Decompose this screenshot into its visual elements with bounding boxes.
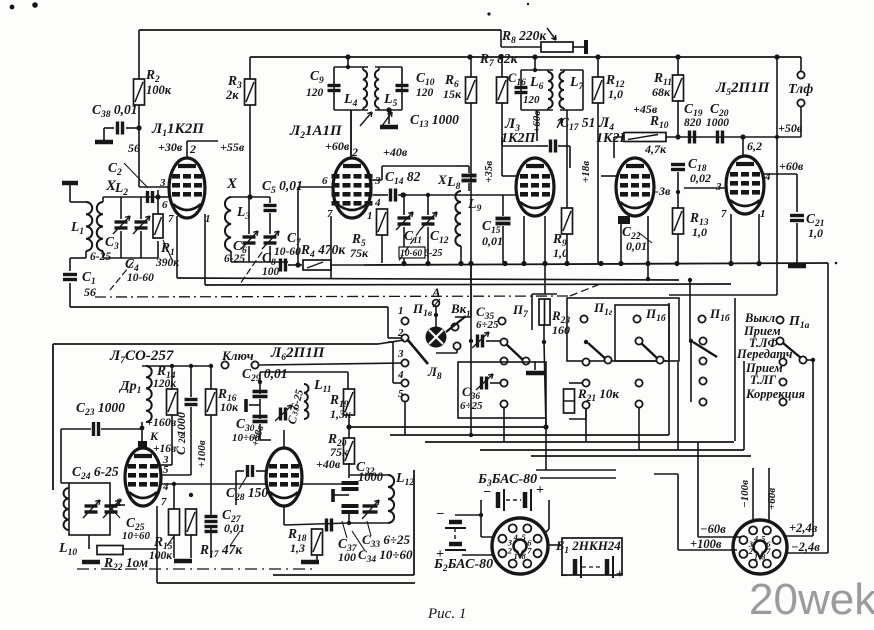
wire R23 box top — [532, 293, 557, 295]
wire AGC bus y263 — [364, 263, 828, 265]
speck — [10, 5, 15, 10]
wire Л1 pin7 down — [176, 216, 178, 278]
switch П1а contact ТЛФ — [776, 337, 783, 344]
wire bottom bus y307 — [70, 306, 388, 308]
wire VFO box top — [53, 343, 378, 345]
wire +60в feed — [768, 468, 770, 522]
terminal Тлф upper — [797, 71, 804, 78]
socket right (power connector) — [733, 520, 787, 574]
wire ant down — [69, 185, 71, 202]
svg-text:120: 120 — [306, 87, 324, 99]
wire C23 right — [101, 428, 142, 430]
antenna terminal bar — [62, 181, 78, 186]
inductor L11 — [304, 384, 309, 419]
svg-text:1: 1 — [398, 305, 404, 317]
wire L6 tap — [534, 57, 536, 70]
wire x690 down — [689, 280, 691, 341]
resistor R20 body — [344, 438, 355, 464]
resistor R19 body — [344, 389, 355, 415]
svg-text:-3в: -3в — [655, 184, 671, 198]
svg-text:2: 2 — [189, 142, 196, 156]
svg-text:100к: 100к — [146, 83, 172, 97]
wire Тлф lower down — [800, 107, 802, 137]
wire R8 wiper — [573, 46, 584, 48]
wire bus y435 — [390, 434, 669, 436]
wire R6 top — [470, 57, 472, 77]
switch П7 contact 4 — [500, 379, 507, 386]
wire R14 down — [171, 415, 173, 465]
capacitor C9 — [328, 86, 341, 91]
battery Б1 cell1 — [573, 559, 578, 575]
wire Л6 grid stub — [256, 470, 267, 472]
wire R8 left — [500, 30, 502, 47]
capacitor C30 — [253, 417, 268, 422]
switch П7 contact 2 — [500, 338, 507, 345]
wire C1 down — [69, 283, 71, 307]
wire R23 down — [543, 325, 545, 342]
wire Б3 left down — [480, 500, 482, 537]
svg-text:+50в: +50в — [778, 121, 803, 135]
wire R2 top — [138, 30, 140, 79]
resistor R12 body — [593, 77, 604, 103]
svg-text:−2,4в: −2,4в — [791, 540, 820, 554]
wire R6 down to bus — [470, 103, 472, 263]
ground under C21 — [788, 264, 806, 269]
capacitor C1 — [63, 275, 77, 280]
wire R7 to C17 node — [502, 145, 537, 147]
capacitor C13 body — [462, 176, 477, 181]
wire C29 box top — [260, 371, 348, 373]
inductor L3 — [225, 197, 231, 251]
switch П7 contact 1 — [498, 317, 505, 324]
switch П1а contact Выкл — [776, 316, 783, 323]
capacitor C23 — [94, 422, 99, 436]
capacitor C7 (10-60) — [264, 237, 277, 243]
wire x777 lower — [776, 137, 778, 295]
svg-text:4: 4 — [374, 197, 381, 209]
wire R12 down — [597, 103, 599, 263]
switch П1а contact ТЛГ — [779, 378, 786, 385]
wire L4 bottom to tube — [350, 110, 352, 158]
wire Л3 pin7 down — [523, 216, 525, 263]
resistor R8 body — [541, 42, 573, 52]
capacitor C29 — [253, 392, 268, 397]
svg-text:0,02: 0,02 — [690, 171, 711, 185]
wire Л5 pin1 down — [758, 214, 760, 263]
wire П7 gnd — [534, 361, 536, 370]
wire box to П1в — [378, 340, 404, 344]
wire Л2 pin7 down — [330, 216, 332, 278]
leader R15 — [167, 536, 174, 546]
resistor R18 body — [312, 529, 323, 555]
wire Ключ to П1в — [259, 363, 402, 365]
switch П1в contact 5 — [401, 394, 408, 401]
svg-text:А: А — [431, 285, 441, 300]
wire -100в feed — [752, 468, 754, 522]
svg-text:7: 7 — [721, 208, 727, 220]
box 10-60 — [399, 247, 425, 258]
tube Л1 (1К2П) — [169, 158, 205, 218]
svg-text:6: 6 — [162, 199, 168, 211]
svg-text:1: 1 — [367, 210, 373, 222]
wire C23 left — [61, 428, 91, 430]
box L10 tank — [69, 483, 110, 535]
svg-text:20wek: 20wek — [749, 575, 874, 624]
wire Л7 pin3 — [161, 464, 172, 466]
ground R15 R17 — [174, 559, 192, 564]
wire R14 top — [171, 366, 173, 389]
svg-text:3: 3 — [374, 175, 381, 187]
switch П1а arm — [783, 343, 801, 358]
wire x813 down — [812, 360, 814, 536]
capacitor C5 — [264, 206, 277, 211]
wire pin2 top — [186, 141, 188, 158]
svg-text:100к: 100к — [149, 550, 173, 562]
tube Л7 top cap — [138, 441, 147, 448]
wire R11 top — [677, 57, 679, 75]
svg-text:10-60: 10-60 — [127, 272, 154, 284]
svg-text:6÷25: 6÷25 — [476, 319, 499, 331]
switch П1б contact 4 — [699, 377, 706, 384]
svg-text:Л62П1П: Л62П1П — [270, 345, 326, 363]
svg-text:К: К — [149, 429, 159, 443]
wire R5 down — [381, 235, 383, 263]
capacitor R8 blocking — [584, 40, 588, 54]
wire tap to C30 node — [249, 404, 260, 406]
wire R2 bottom to grid — [138, 105, 140, 187]
wire C30 down — [259, 424, 261, 440]
wire C27 down — [210, 527, 212, 558]
switch П1б-i contact 3 — [656, 356, 663, 363]
wire R15 top — [173, 484, 175, 509]
tube Л3 (1К2П) — [516, 158, 554, 216]
wire L2 top — [102, 197, 104, 202]
wire C3 top — [120, 197, 122, 219]
capacitor C26 — [185, 400, 198, 405]
resistor R13 body — [673, 208, 684, 234]
wire C38 to gnd — [103, 128, 105, 140]
wire x669 — [668, 303, 670, 435]
terminal Тлф lower — [797, 99, 804, 106]
wire C38 right — [126, 127, 139, 129]
battery Б3 cell2 — [523, 492, 528, 508]
cathode tap — [244, 399, 248, 412]
svg-text:56: 56 — [84, 285, 96, 299]
wire L10 down — [88, 535, 90, 549]
wire C21 down — [796, 223, 798, 263]
wire gang diag — [570, 284, 600, 296]
wire C26 top — [190, 366, 192, 397]
svg-text:1,0: 1,0 — [692, 225, 707, 239]
fuse R23 — [539, 299, 550, 325]
wire pin6 — [158, 196, 171, 198]
capacitor C10 — [396, 86, 409, 91]
tube Л5 (2П1П) — [726, 156, 764, 214]
wire C18 to R13 — [677, 172, 679, 209]
svg-text:Л11К2П: Л11К2П — [151, 121, 205, 139]
wire R15 down — [173, 535, 175, 558]
svg-text:75к: 75к — [350, 246, 369, 260]
switch П1а contact Корр — [779, 398, 786, 405]
inductor L4 — [363, 70, 367, 108]
capacitor C33/C34 variable — [363, 506, 378, 512]
switch П1в contact 1 — [401, 317, 408, 324]
wire tap2 — [333, 494, 349, 496]
wire L3 top — [231, 196, 250, 198]
wire C4 top — [140, 197, 142, 219]
svg-text:4: 4 — [764, 171, 771, 183]
capacitor C27 — [205, 517, 218, 522]
svg-text:+60в: +60в — [779, 159, 804, 173]
wire R1 top — [157, 197, 159, 214]
switch П1г contact 5 — [582, 401, 589, 408]
capacitor C25 (10-60) — [105, 506, 118, 512]
svg-text:1,0: 1,0 — [608, 87, 623, 101]
svg-text:0,01: 0,01 — [626, 239, 647, 253]
resistor R11 body — [673, 75, 684, 101]
svg-text:Рис. 1: Рис. 1 — [427, 606, 466, 622]
svg-text:68к: 68к — [652, 85, 671, 99]
capacitor C31 (6-25) — [281, 408, 286, 421]
wire Л7 top bus — [142, 365, 211, 367]
wire П1в c5 down — [404, 401, 406, 435]
svg-text:−: − — [483, 485, 491, 500]
ground under C38 — [95, 140, 113, 145]
inductor L1 — [86, 202, 92, 251]
svg-text:1,3: 1,3 — [290, 541, 305, 555]
svg-text:4: 4 — [162, 481, 169, 493]
wire C15 down — [502, 226, 504, 263]
svg-text:1: 1 — [760, 208, 766, 220]
wire to L1 top — [70, 201, 86, 203]
wire Вк1 up — [455, 316, 471, 318]
battery Б2 cell2 — [449, 542, 462, 547]
wire Л5 pin7 down — [730, 214, 732, 263]
wire R18 down — [316, 555, 318, 560]
wire R9 down — [566, 234, 568, 263]
wire tank top to C2 — [131, 196, 158, 198]
wire R19-R20 — [348, 414, 350, 439]
wire Л4 plate stub — [613, 137, 615, 158]
switch П7 contact 3 — [500, 357, 507, 364]
leader C2 — [124, 163, 148, 188]
switch П1в arm — [407, 339, 428, 364]
wire C6 top — [248, 197, 250, 234]
switch П7 contact 5 — [500, 400, 507, 407]
resistor R7 body — [497, 77, 508, 103]
wire L5 box — [375, 66, 402, 68]
node Л5 grid — [740, 134, 745, 139]
wire plate bus y137 — [614, 136, 801, 138]
svg-text:100: 100 — [338, 550, 356, 564]
wire Др1 to Л7 — [141, 422, 143, 441]
capacitor C38 — [118, 122, 123, 135]
wire ant to lamp — [435, 307, 437, 327]
svg-text:+40в: +40в — [316, 457, 341, 471]
svg-text:+35в: +35в — [483, 161, 495, 183]
node C38/R2 — [136, 125, 141, 130]
svg-text:7: 7 — [327, 208, 333, 220]
switch П1б-i contact 4 — [635, 379, 642, 386]
wire C11 top — [403, 195, 405, 215]
svg-text:1К2П: 1К2П — [501, 131, 536, 146]
wire Л4 pin7 down — [620, 224, 622, 263]
terminal Ключ right — [251, 361, 258, 368]
wire VFO box left — [52, 344, 54, 490]
wire lamp to Вк1 — [436, 352, 457, 354]
wire C36 to contact — [490, 382, 500, 384]
wire top +bus y30 — [139, 29, 501, 31]
wire socket to Б1 — [548, 544, 562, 546]
svg-text:10к: 10к — [220, 400, 239, 414]
wire Б1 dash — [582, 566, 601, 568]
svg-text:0,01: 0,01 — [482, 234, 503, 248]
svg-text:+100в: +100в — [196, 440, 208, 468]
svg-text:7: 7 — [168, 213, 174, 225]
wire Тлф top — [800, 57, 802, 71]
wire C13 down — [468, 166, 470, 173]
box П1а — [734, 298, 736, 441]
switch П1а contact Прием — [779, 358, 786, 365]
switch П1б contact 3 — [699, 357, 706, 364]
wire L3 bottom — [230, 251, 232, 262]
wire C28 left — [236, 470, 244, 472]
wire Л4 cathode ext — [647, 263, 649, 279]
svg-text:1: 1 — [205, 213, 211, 225]
svg-text:6-25: 6-25 — [224, 253, 245, 265]
svg-text:−100в: −100в — [739, 480, 751, 508]
wire Л7 pin4 long — [161, 483, 352, 485]
capacitor C35 (6-25) — [478, 335, 483, 348]
switch П1б-i contact 2 — [635, 337, 642, 344]
inductor L6 — [548, 72, 553, 108]
svg-text:Т.ЛГ: Т.ЛГ — [750, 373, 777, 387]
svg-text:−60в: −60в — [700, 522, 726, 536]
wire R3 top — [249, 57, 251, 79]
wire П7 c5 down — [503, 408, 505, 442]
wire -60в feed — [697, 442, 699, 537]
svg-text:2к: 2к — [225, 88, 239, 102]
resistor R9 body — [562, 208, 573, 234]
wire Л1 pin1 down — [204, 214, 206, 285]
switch Вк1 contact b — [453, 342, 460, 349]
wire L5 to gnd — [388, 110, 390, 124]
inductor L7 — [559, 72, 564, 108]
wire Л2 top to L4 — [350, 110, 352, 158]
wire R21 bottom — [569, 418, 586, 420]
capacitor C6 (6-25) — [243, 237, 256, 243]
wire to Л5 top — [742, 137, 744, 155]
switch П1в contact 3 — [401, 359, 408, 366]
wire L4 box top — [334, 66, 368, 68]
svg-text:4,7к: 4,7к — [644, 142, 667, 156]
capacitor C37 — [342, 506, 359, 512]
wire R20 down — [348, 463, 350, 478]
switch П1б-i contact 5 — [635, 400, 642, 407]
wire Л7 cathode down — [156, 506, 158, 583]
switch П1в contact 4 — [401, 379, 408, 386]
inductor L9 — [455, 191, 461, 246]
svg-text:0,01: 0,01 — [224, 521, 245, 535]
wire y295 — [669, 294, 777, 296]
switch П1г contact 1 — [580, 315, 587, 322]
wire -2,4в feed — [786, 552, 828, 554]
resistor R4 body — [303, 260, 331, 270]
wire dash-dot gang line — [95, 296, 570, 297]
switch Вк1 arm — [446, 316, 466, 332]
switch П7 arm — [506, 344, 523, 360]
leader R17 — [230, 531, 240, 546]
ground under L5 — [380, 125, 398, 130]
tube Л7 (СО-257) — [125, 448, 161, 506]
svg-text:6,2: 6,2 — [747, 139, 762, 153]
tube Л6 (2П1П) — [266, 448, 302, 506]
resistor R16 body — [206, 389, 217, 415]
wire C26 down — [190, 407, 192, 475]
wire R13 down — [677, 234, 679, 263]
svg-text:56: 56 — [128, 141, 140, 155]
ground L10 — [82, 560, 100, 565]
wire R22 to cathode — [123, 548, 157, 550]
switch П1а pole — [799, 356, 806, 363]
capacitor C36 (6-25) — [482, 377, 487, 390]
battery Б2 cell1 — [449, 520, 462, 525]
wire bus y278 — [177, 278, 679, 280]
wire C36 box down — [545, 418, 547, 470]
suppressor in Л4 grid — [618, 216, 630, 224]
svg-text:+60в: +60в — [766, 488, 778, 510]
resistor R22 body — [97, 546, 123, 555]
choke Др1 — [146, 366, 152, 422]
svg-text:Л52П1П: Л52П1П — [715, 80, 771, 98]
box Б1 — [562, 538, 622, 575]
wire П1б-i c5 down — [638, 408, 640, 450]
svg-text:Б2БАС-80: Б2БАС-80 — [433, 557, 493, 574]
resistor R2 body — [134, 79, 145, 105]
svg-text:+: + — [536, 483, 544, 498]
wire C15 top — [502, 195, 504, 216]
wire +2,4в feed — [786, 535, 813, 537]
wire Л6 bottom down — [283, 506, 285, 525]
svg-text:3: 3 — [715, 181, 722, 193]
wire Б3 right down — [548, 500, 550, 529]
wire L4 top tap — [347, 57, 349, 67]
wire screen bus y57 — [250, 56, 801, 58]
svg-text:+60в: +60в — [531, 111, 543, 133]
wire gang dash C3C4 — [110, 262, 133, 290]
switch П1б contact 1 — [698, 315, 705, 322]
wire L7 bottom to R9 — [566, 110, 568, 208]
switch П1б contact 5 — [699, 398, 706, 405]
svg-text:6: 6 — [322, 175, 328, 187]
wire bus y583 — [157, 582, 415, 584]
switch Вк1 contact a — [451, 323, 458, 330]
wire tank bottom l — [284, 523, 349, 525]
wire R7 down — [501, 103, 503, 146]
svg-text:1000: 1000 — [706, 117, 729, 129]
wire bus y427 — [349, 426, 546, 428]
capacitor C12 (6-25) — [422, 218, 435, 224]
wire box bottom b — [540, 477, 616, 479]
svg-text:1,0: 1,0 — [553, 246, 568, 260]
capacitor C2 — [148, 191, 153, 203]
wire x678a — [677, 362, 679, 450]
capacitor C8 — [281, 259, 286, 272]
wire П1в bracket2 — [392, 342, 394, 383]
wire +35в stub — [501, 137, 503, 176]
wire Л3 cathode down — [544, 216, 546, 263]
capacitor C4 (10-60) — [135, 222, 148, 228]
